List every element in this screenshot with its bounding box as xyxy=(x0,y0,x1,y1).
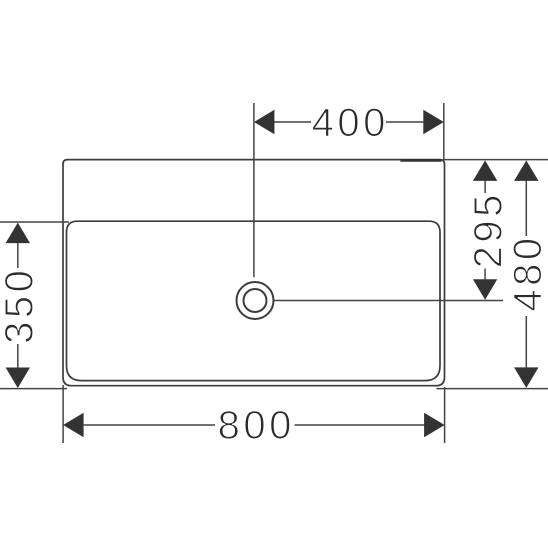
dimension 800 right arrowhead xyxy=(424,413,445,437)
dimension 350 bottom arrowhead xyxy=(6,368,30,389)
drain inner circle xyxy=(244,289,267,312)
extension line: drain centre vertical xyxy=(253,103,255,277)
dimension 800 line right segment xyxy=(295,424,425,426)
dimension 295 bottom arrowhead xyxy=(473,279,497,300)
svg-text:295: 295 xyxy=(467,191,511,268)
extension line: basin right edge below xyxy=(444,387,446,443)
basin outer outline xyxy=(63,160,445,386)
svg-text:800: 800 xyxy=(218,403,295,447)
dimension 350 top arrowhead xyxy=(6,223,30,244)
dimension 400 left arrowhead xyxy=(254,110,275,134)
dimension 295 line upper segment xyxy=(484,180,486,193)
dimension 480 line upper segment xyxy=(525,180,527,236)
svg-text:480: 480 xyxy=(506,234,548,311)
extension line: bowl top edge to left margin xyxy=(0,221,69,223)
svg-text:350: 350 xyxy=(0,267,42,344)
extension line: basin bottom edge to right margin xyxy=(437,388,548,390)
extension line: basin left edge below xyxy=(62,385,64,443)
dimension 350 line lower segment xyxy=(17,344,19,368)
dimension 295 top arrowhead xyxy=(473,160,497,181)
dimension 480 top arrowhead xyxy=(514,160,538,181)
dimension 480 bottom arrowhead xyxy=(514,367,538,388)
extension line: drain centre horizontal xyxy=(274,300,504,302)
basin rear edge thick segment xyxy=(400,159,441,162)
dimension 480 line lower segment xyxy=(525,316,527,368)
dimension 800 left arrowhead xyxy=(63,413,84,437)
svg-text:400: 400 xyxy=(312,101,389,145)
dimension 800 line left segment xyxy=(84,424,215,426)
dimension 400 line right segment xyxy=(386,121,424,123)
dimension 400 right arrowhead xyxy=(423,110,444,134)
dimension 295 line lower segment xyxy=(484,269,486,280)
extension line: basin bottom edge to left margin xyxy=(0,388,67,390)
drain outer circle xyxy=(237,282,274,319)
extension line: basin top edge to right margin xyxy=(443,159,548,161)
dimension 350 line upper segment xyxy=(17,243,19,268)
dimension 400 line left segment xyxy=(274,121,311,123)
extension line: basin right edge up to dim 400 xyxy=(443,103,445,160)
inner bowl outline xyxy=(67,221,441,380)
